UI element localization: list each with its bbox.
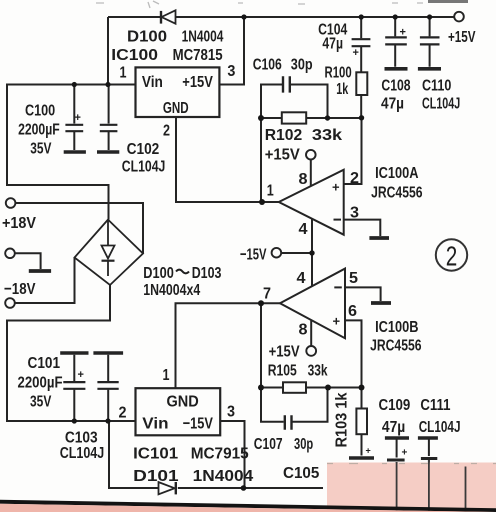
svg-text:−15V: −15V [183, 416, 213, 433]
svg-text:C108: C108 [381, 78, 410, 95]
wire top +15V rail [108, 16, 455, 18]
wire right stub [461, 467, 470, 512]
svg-text:JRC4556: JRC4556 [370, 337, 421, 354]
svg-text:+: + [400, 27, 406, 39]
wire opampA pin2 stub [344, 118, 362, 184]
diode D100 [161, 10, 176, 23]
svg-text:R105: R105 [268, 362, 297, 379]
wire opampB output to IC101 GND pin1 [176, 303, 281, 388]
wire IC100 pin3 to rail [220, 17, 245, 85]
regulator IC100 MC7815 box [136, 67, 220, 117]
svg-text:IC100: IC100 [111, 47, 158, 64]
svg-text:2: 2 [119, 405, 127, 422]
svg-text:+: + [78, 369, 84, 381]
svg-text:1N4004: 1N4004 [193, 468, 254, 485]
wire C107 loop [261, 388, 328, 422]
capacitor C111 [418, 438, 438, 459]
svg-text:2200µF: 2200µF [18, 375, 63, 392]
capacitor C108 [385, 17, 408, 69]
svg-text:+15V: +15V [182, 74, 213, 91]
svg-text:C107: C107 [254, 436, 283, 453]
wire R102 line [261, 117, 362, 119]
scan noise top edge [96, 1, 423, 8]
svg-text:47µ: 47µ [382, 419, 405, 436]
svg-text:MC7815: MC7815 [173, 47, 223, 64]
svg-text:D103: D103 [192, 265, 222, 282]
capacitor C103 [93, 353, 123, 421]
wire R103 stems [361, 388, 363, 456]
svg-text:30p: 30p [294, 436, 313, 453]
svg-text:R103 1k: R103 1k [334, 392, 351, 447]
svg-text:8: 8 [299, 322, 308, 339]
ground centertap [29, 269, 51, 273]
op-amp U=IC100A triangle [279, 170, 344, 235]
resistor R102 [282, 112, 306, 123]
svg-text:C105: C105 [283, 465, 319, 482]
svg-text:GND: GND [163, 100, 189, 117]
ground R103 [349, 456, 374, 460]
capacitor C110 [418, 17, 441, 69]
ground opampA pin3 [369, 236, 389, 240]
svg-text:C109: C109 [379, 397, 411, 414]
wire IC100 GND pin2 to opampA output [176, 117, 279, 202]
svg-text:Vin: Vin [142, 74, 163, 91]
svg-text:C111: C111 [420, 397, 450, 414]
svg-text:CL104J: CL104J [419, 419, 461, 436]
svg-text:+15V: +15V [448, 29, 476, 46]
svg-text:+18V: +18V [2, 215, 36, 232]
svg-text:D100: D100 [127, 29, 167, 46]
black bottom bar [0, 500, 496, 512]
svg-text:+: + [75, 112, 81, 124]
svg-text:+: + [332, 180, 340, 195]
wire opampB pin6 stub [345, 320, 362, 387]
svg-text:JRC4556: JRC4556 [371, 184, 422, 201]
wire feedback vertical B [260, 303, 262, 387]
svg-text:6: 6 [348, 303, 357, 320]
capacitor C100 [64, 85, 86, 153]
wire R105 line [261, 387, 362, 389]
svg-text:C106: C106 [253, 57, 282, 74]
wire Vin line [7, 84, 136, 86]
resistor R105 [283, 382, 306, 393]
svg-text:C100: C100 [25, 103, 55, 120]
svg-text:IC101: IC101 [133, 446, 178, 463]
svg-text:+: + [366, 446, 371, 456]
diode D101 [159, 482, 176, 494]
wire centertap to ground [15, 253, 41, 269]
svg-text:3: 3 [227, 403, 235, 420]
wire stubs over pink redrawn [397, 460, 466, 512]
wire rail-to-Vin vertical [107, 17, 109, 85]
resistor R100 [356, 72, 367, 95]
op-amp IC100B triangle [280, 269, 345, 339]
capacitor C101 [60, 353, 88, 421]
svg-text:−18V: −18V [4, 281, 36, 298]
svg-text:4: 4 [297, 270, 306, 287]
svg-text:3: 3 [350, 205, 359, 222]
svg-text:C101: C101 [28, 355, 61, 372]
pink region right [327, 463, 496, 512]
svg-text:4: 4 [299, 221, 308, 238]
wire bridge bottom to left rail to IC101 [7, 285, 136, 421]
svg-text:GND: GND [167, 394, 199, 411]
wire C106 loop [261, 85, 328, 119]
svg-text:1N4004: 1N4004 [182, 29, 224, 46]
wire -15V node pin4 [281, 219, 312, 286]
svg-text:+: + [333, 314, 341, 329]
svg-text:−15V: −15V [240, 246, 267, 263]
svg-text:2200µF: 2200µF [18, 122, 60, 139]
svg-text:47µ: 47µ [381, 96, 404, 113]
wire opampA pin8 [310, 160, 312, 186]
svg-text:C110: C110 [422, 78, 451, 95]
svg-text:33k: 33k [308, 362, 328, 379]
svg-text:2: 2 [350, 170, 359, 187]
svg-text:1: 1 [267, 183, 274, 200]
wire feedback vertical A [260, 118, 262, 202]
ground opampB pin5 [371, 301, 391, 305]
wire C111 stems [428, 440, 430, 512]
wire opampB pin8 [310, 321, 312, 346]
wire opampA pin3 stub to ground [344, 220, 381, 236]
svg-text:D101: D101 [133, 468, 179, 485]
pink band bottom left [0, 504, 496, 512]
svg-text:3: 3 [227, 63, 235, 80]
svg-text:1: 1 [120, 65, 127, 82]
svg-text:+: + [353, 47, 359, 59]
wire D101 rail [109, 421, 323, 488]
svg-text:35V: 35V [30, 140, 51, 157]
svg-text:30p: 30p [291, 57, 313, 74]
svg-text:2: 2 [446, 241, 458, 272]
svg-text:R102: R102 [265, 127, 303, 144]
svg-text:+15V: +15V [269, 343, 300, 360]
svg-text:1: 1 [163, 367, 170, 384]
svg-text:5: 5 [349, 270, 358, 287]
svg-text:2: 2 [163, 122, 170, 139]
wire C104 R100 chain [360, 17, 362, 118]
bridge rectifier D100~D103 [75, 220, 144, 285]
svg-text:+15V: +15V [265, 147, 300, 164]
capacitor C104 [352, 39, 371, 46]
svg-text:CL104J: CL104J [60, 445, 104, 462]
node circled 2 [436, 239, 467, 271]
svg-text:7: 7 [263, 286, 271, 303]
svg-text:1N4004x4: 1N4004x4 [143, 282, 200, 299]
svg-text:35V: 35V [30, 394, 52, 411]
svg-text:CL104J: CL104J [122, 159, 166, 176]
wire -18V to bridge [15, 258, 75, 304]
capacitor C109 [385, 438, 409, 460]
capacitor C107 [285, 415, 292, 429]
regulator IC101 MC7915 box [136, 388, 221, 435]
svg-text:MC7915: MC7915 [191, 446, 249, 463]
pink boundary dashes [327, 463, 496, 465]
svg-text:C102: C102 [127, 141, 160, 158]
svg-text:C103: C103 [65, 429, 98, 446]
svg-text:47µ: 47µ [322, 36, 343, 53]
svg-text:33k: 33k [312, 127, 342, 144]
svg-text:Vin: Vin [142, 416, 168, 433]
wire C109 stems [396, 440, 398, 512]
wire left vertical upper [7, 84, 109, 220]
capacitor C106 [283, 76, 290, 92]
svg-text:8: 8 [299, 171, 308, 188]
capacitor C102 [97, 85, 119, 153]
svg-text:D100: D100 [143, 265, 174, 282]
svg-text:+: + [402, 448, 408, 459]
resistor R103 [356, 409, 367, 435]
svg-text:1k: 1k [336, 81, 348, 98]
wire IC101 pin3 down [220, 421, 244, 488]
svg-text:CL104J: CL104J [422, 96, 460, 113]
svg-text:IC100B: IC100B [375, 319, 418, 336]
wire +18V to bridge [15, 203, 143, 254]
svg-text:IC100A: IC100A [375, 165, 419, 182]
svg-text:R100: R100 [325, 64, 352, 81]
wire opampB pin5 stub to ground [345, 287, 381, 301]
terminal circles [5, 12, 464, 356]
